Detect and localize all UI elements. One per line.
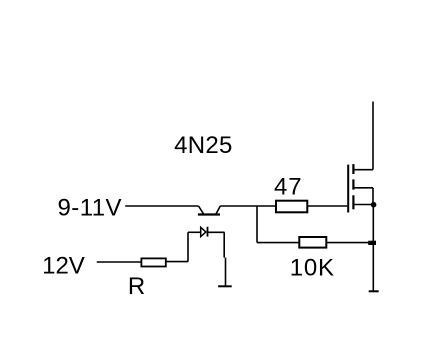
mosfet Q1 source stub [353, 204, 373, 206]
mosfet Q1 body stub [353, 187, 373, 189]
transistor U1 emitter slant [216, 206, 220, 214]
svg-text:R: R [128, 273, 145, 300]
resistor 47 [276, 201, 307, 213]
ground led [218, 285, 232, 287]
transistor U1 collector slant [199, 206, 204, 214]
svg-text:12V: 12V [42, 252, 85, 279]
wire drain vertical [372, 102, 374, 170]
transistor U1 base bar [198, 213, 220, 215]
svg-text:9-11V: 9-11V [58, 195, 123, 222]
wire led branch up [187, 232, 189, 261]
wire led down upper [223, 232, 225, 257]
mosfet Q1 channel segment middle [352, 179, 354, 189]
wire source vertical [372, 205, 374, 292]
wire to resistor 10K [257, 242, 299, 244]
wire resistor R to led branch [166, 261, 188, 263]
mosfet Q1 channel segment bottom [352, 195, 354, 209]
svg-text:10K: 10K [290, 255, 335, 282]
mosfet Q1 drain stub [353, 169, 373, 171]
resistor 10K [299, 237, 326, 248]
wire resistor 10K to source node [326, 242, 371, 244]
mosfet Q1 channel segment top [352, 164, 354, 174]
svg-text:47: 47 [274, 174, 303, 201]
wire body to source [372, 188, 374, 205]
wire led cathode [208, 231, 225, 233]
wire branch vertical [256, 206, 258, 243]
wire led anode [188, 231, 201, 233]
junction square 10K node [368, 241, 376, 245]
resistor R [141, 258, 165, 266]
mosfet Q1 gate bar [347, 165, 349, 213]
terminal bar bottom [369, 290, 379, 292]
wire emitter to resistor 47 [220, 205, 276, 207]
wire led down lower [225, 258, 227, 287]
led D1 triangle [201, 227, 206, 236]
wire 9-11V input [125, 205, 198, 207]
junction dot source node [371, 202, 377, 208]
svg-text:4N25: 4N25 [174, 132, 233, 159]
wire resistor 47 to gate [307, 205, 347, 207]
led D1 cathode bar [207, 227, 209, 237]
wire 12V input [97, 261, 142, 263]
